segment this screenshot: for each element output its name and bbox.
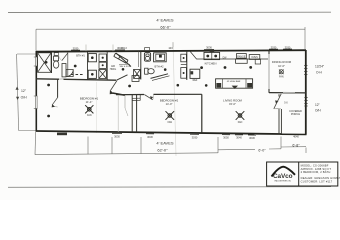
bed1 left closet wall [57,79,59,98]
bed1 closet door swing [52,98,58,106]
washer [88,54,96,62]
bath2/linen wall [186,51,188,80]
toilet 1 [54,56,59,61]
12" O/H arrows left [16,87,20,101]
corner shower [66,70,73,77]
svg-text:62'-0": 62'-0" [157,148,168,153]
window labels top wall [73,45,291,50]
svg-text:3030: 3030 [73,46,79,50]
svg-text:RANGE: RANGE [237,55,246,58]
utility light dot [122,68,125,71]
svg-text:14'-0": 14'-0" [166,102,173,106]
svg-text:O/H: O/H [315,108,321,112]
title block text [301,163,340,183]
svg-text:4' EAVES: 4' EAVES [156,17,173,22]
pantry column boxes [99,54,106,61]
svg-text:PORCH: PORCH [291,112,300,116]
top border line [8,11,331,13]
svg-text:2413: 2413 [121,47,127,50]
linen column boxes [181,54,187,62]
closet rod dashes [71,74,85,76]
kitchen light dots [200,66,203,69]
svg-text:3040: 3040 [236,136,242,140]
wall right of pantry column [106,52,108,80]
foyer light dot [128,85,131,88]
svg-text:103: 103 [168,46,173,50]
svg-text:6'-0": 6'-0" [258,148,266,152]
utility/bath2 wall [140,52,142,80]
living room fan [236,111,245,120]
svg-text:INDUSTRIES IN.: INDUSTRIES IN. [274,181,291,183]
furnace diagonal cabinet [114,53,128,63]
small vent box on top wall [145,48,150,51]
right wall window hatch (dining) [304,66,307,75]
kitchen/dining wall [268,51,270,93]
svg-text:4' EAVES: 4' EAVES [156,141,173,146]
dining sliding door gap [283,92,295,94]
bath2 light dot [164,68,167,71]
porch door swing [274,94,281,109]
wall left of W/D [87,52,89,80]
svg-text:CaVco: CaVco [273,173,293,180]
entry foyer diagonal walls [117,75,128,80]
bedroom 1 fan [85,105,93,113]
faint verticals above wall [85,45,87,52]
svg-text:3030: 3030 [271,45,277,49]
stool dots [177,84,180,87]
svg-text:REF: REF [193,79,198,82]
entry door threshold bottom-left [57,133,67,136]
dimension 62'-0" bottom [35,132,218,155]
right wall porch post marks [304,98,307,107]
svg-text:3050: 3050 [223,136,229,140]
svg-text:OVEN: OVEN [251,57,258,59]
dryer [88,70,96,78]
svg-text:15'-0": 15'-0" [229,102,236,106]
hall cabinet [132,76,139,82]
svg-text:HNDL: HNDL [110,68,117,71]
svg-text:FAN: FAN [279,75,284,78]
small closet door bed1 right [124,95,126,108]
dimension 66'-0" top [36,27,305,51]
top wall window sills [71,49,292,50]
svg-text:APPROX. 1288 SQ FT: APPROX. 1288 SQ FT [301,167,332,171]
island bar [216,79,253,88]
dining/porch wall [269,92,306,94]
bottom wall window sills [112,133,256,135]
bed1/bed2 divider wall [131,95,133,132]
svg-text:BEDROOM #2: BEDROOM #2 [160,99,179,103]
svg-text:3030: 3030 [147,135,153,139]
TITLE BLOCK [267,162,338,186]
utility diagonal wall [116,53,131,67]
left eave overhang outline [17,54,36,131]
svg-text:MODEL: CS-2066BF: MODEL: CS-2066BF [301,163,329,167]
bath2 diagonal entry wall [151,74,169,79]
bottom border line [8,186,331,189]
top wall [36,50,306,52]
svg-text:BTH #2: BTH #2 [154,64,164,68]
svg-text:3030: 3030 [249,136,255,140]
range [237,54,247,59]
svg-text:12/24": 12/24" [315,65,324,69]
pocket door track [138,52,140,68]
double sink [204,52,220,59]
svg-text:42 HIGH BAR: 42 HIGH BAR [227,80,241,83]
svg-text:BEDROOM #1: BEDROOM #1 [80,96,99,100]
desk end counter [255,59,260,64]
svg-text:3036: 3036 [206,46,212,50]
vanity with sink [144,53,150,62]
shower stall narrow [62,64,66,77]
garden tub [154,53,167,62]
left wall window lower (bedroom 1) [35,96,37,109]
svg-text:DEALER: GREGSON HOMES: DEALER: GREGSON HOMES [301,176,340,180]
svg-text:12": 12" [315,103,320,107]
small shelf above toilet [54,53,58,56]
bedroom 1 light dots [47,84,50,87]
left wall window upper [35,57,37,66]
wardrobe closet with X [38,53,52,73]
toilet 2 [145,68,148,74]
svg-text:66'-0": 66'-0" [160,24,171,29]
svg-text:3030: 3030 [192,135,198,139]
svg-text:O-H: O-H [316,70,323,74]
left wall [35,51,37,132]
water heater 2 X box [134,69,141,78]
svg-text:6'-8": 6'-8" [292,143,300,147]
svg-text:3030: 3030 [114,135,120,139]
svg-text:11'-4": 11'-4" [86,100,93,104]
utility light dot [74,65,77,68]
wall closet/toilet divider [51,52,53,73]
svg-text:CUSTOMER: LOT #117: CUSTOMER: LOT #117 [301,180,333,184]
svg-text:FAN: FAN [87,114,92,117]
svg-text:KITCHEN: KITCHEN [205,62,217,66]
living/porch wall [278,109,280,134]
refrigerator [190,69,200,78]
logo swoosh [272,167,296,177]
hall wall above bedroom 2 [116,94,144,96]
crease line [173,42,176,156]
bedroom2 door swing [144,95,153,100]
svg-text:12": 12" [21,89,27,93]
svg-text:WH & FUR: WH & FUR [120,66,131,68]
crease line 2 [96,82,98,133]
water heater X box [99,70,107,79]
svg-text:LIVING ROOM: LIVING ROOM [223,99,242,103]
counter edge line [190,52,268,60]
svg-text:FAN: FAN [238,121,243,124]
svg-text:2 BEDROOM, 2 BATH: 2 BEDROOM, 2 BATH [301,170,331,174]
svg-text:3030: 3030 [285,45,291,49]
svg-text:FAN: FAN [168,121,173,124]
bed2/living wall [201,94,203,133]
svg-text:10'-6": 10'-6" [278,64,285,68]
dining ceiling fan [279,70,284,75]
bed1 closet line [117,95,119,132]
right wall [305,50,307,135]
wall oven box [249,55,260,60]
svg-text:BTH #1: BTH #1 [76,55,85,58]
dimension 6'-0" porch area [218,137,306,154]
window labels bottom wall [114,135,299,140]
bath strip bottom wall [36,79,116,80]
bath1 door swing [62,53,68,61]
bottom wall [36,131,282,134]
porch bottom wall [281,133,307,135]
wall toilet room right [67,52,69,77]
svg-text:O/H: O/H [21,96,28,100]
svg-text:DINING ROOM: DINING ROOM [272,60,292,64]
bedroom 2 fan [166,111,175,120]
svg-text:4040: 4040 [293,135,299,139]
